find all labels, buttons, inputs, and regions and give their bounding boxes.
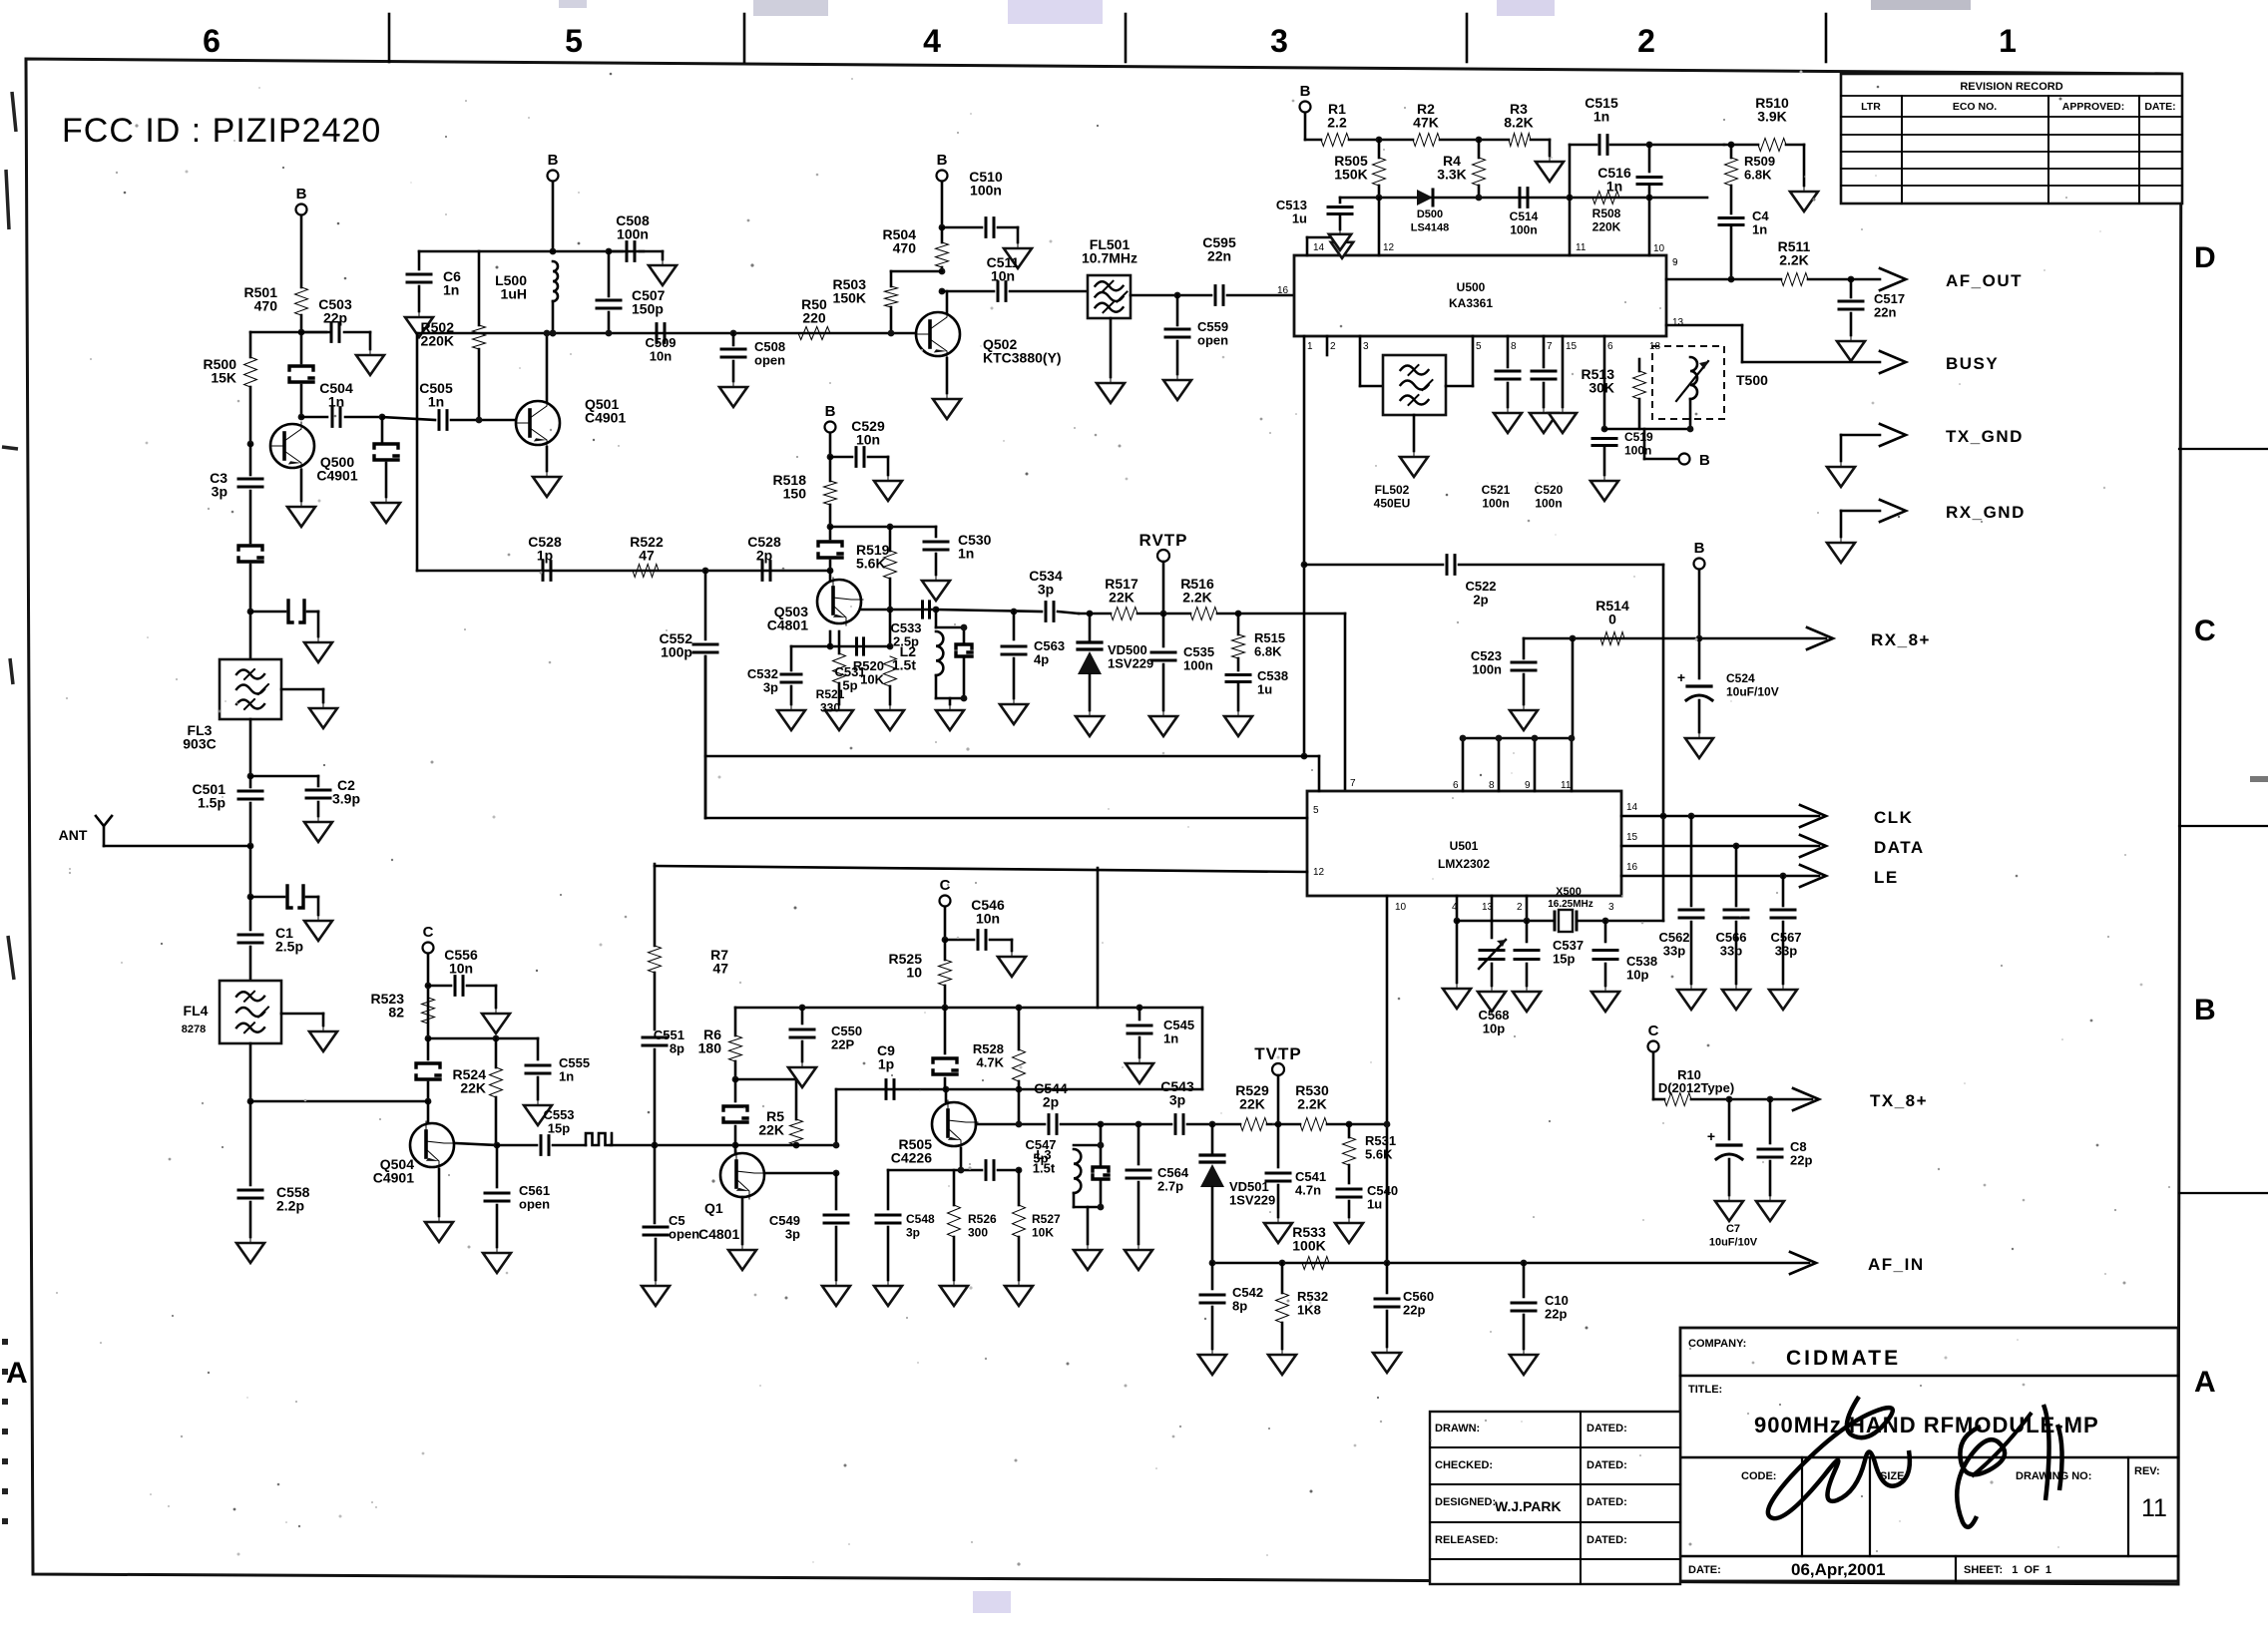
ground bead shunt 1 [317, 636, 319, 642]
svg-text:100n: 100n [617, 226, 649, 242]
capacitor C552 100p [704, 571, 707, 639]
IC U500 KA3361 [1294, 255, 1666, 336]
node R503 base [888, 330, 895, 337]
rail right drop [1201, 1008, 1204, 1089]
rail drop to bias rail [1097, 868, 1100, 1008]
capacitor C561 open [496, 1145, 499, 1187]
IC U501 LMX2302 [1307, 791, 1621, 896]
resistor R502 220K [478, 251, 481, 325]
capacitor C547 5p [986, 1161, 994, 1180]
svg-text:5: 5 [565, 23, 583, 59]
resistor R515 6.8K [1237, 614, 1240, 634]
resistor R1 2.2 [1305, 139, 1321, 142]
svg-text:1n: 1n [958, 546, 974, 562]
pin15 ground wire [1562, 336, 1565, 407]
node R2/R3/R4 [1476, 137, 1483, 144]
varactor VD501 1SV229 [1211, 1124, 1214, 1153]
node R1/R2/R505 [1376, 137, 1383, 144]
pin 14 [1306, 237, 1309, 255]
svg-text:8.2K: 8.2K [1504, 115, 1534, 131]
ferrite bead Q505 base [944, 1008, 947, 1053]
svg-text:33p: 33p [1775, 944, 1797, 959]
resistor R525 10 [944, 940, 947, 960]
node Q503 base [827, 568, 834, 575]
transistor Q500 C4901 [270, 424, 314, 468]
Q1 base row extension [735, 1144, 836, 1147]
capacitor C514 100n [1520, 189, 1528, 207]
svg-text:1: 1 [1999, 23, 2017, 59]
resistor R531 5.6K [1348, 1124, 1351, 1137]
pin9 wire AF_OUT [1666, 278, 1781, 281]
crystal X500 16.25MHz [1555, 912, 1577, 930]
capacitor C10 22p [1523, 1263, 1526, 1297]
svg-text:22p: 22p [1403, 1303, 1425, 1318]
node C7 [1726, 1096, 1733, 1103]
svg-text:KA3361: KA3361 [1449, 296, 1493, 310]
svg-text:RELEASED:: RELEASED: [1435, 1534, 1499, 1546]
node C556 [425, 983, 432, 990]
svg-text:REVISION RECORD: REVISION RECORD [1960, 81, 2062, 93]
svg-text:30K: 30K [1588, 380, 1614, 396]
transistor Q501 C4901 [550, 330, 557, 337]
svg-text:C: C [2194, 614, 2216, 647]
transformer T500 (dashed) [1652, 346, 1724, 419]
svg-text:1n: 1n [1752, 222, 1767, 237]
svg-text:3p: 3p [1038, 582, 1054, 598]
svg-text:33p: 33p [1720, 944, 1742, 959]
node Q505 base [943, 1086, 950, 1093]
Q505 emitter [960, 1148, 963, 1170]
node R523 bottom [425, 1035, 432, 1042]
capacitor C511 10n [942, 290, 994, 293]
resistor R513 30K [1604, 428, 1690, 431]
resistor R526 300 [953, 1170, 956, 1205]
svg-text:1p: 1p [878, 1056, 894, 1072]
svg-text:4.7K: 4.7K [977, 1055, 1005, 1070]
signal arrow AF_IN [1790, 1252, 1816, 1274]
svg-text:DATED:: DATED: [1587, 1496, 1627, 1508]
svg-text:1u: 1u [1257, 682, 1272, 697]
node pin10/C560 [1384, 1260, 1391, 1267]
node R6/R5 [732, 1076, 739, 1083]
filter FL4 8278 [220, 981, 281, 1043]
supply node B (R1) [1300, 102, 1311, 113]
svg-text:14: 14 [1626, 802, 1638, 813]
svg-text:C7: C7 [1726, 1223, 1740, 1235]
svg-text:1uH: 1uH [501, 286, 527, 302]
svg-text:ANT: ANT [59, 827, 88, 843]
ground pin4 [1456, 921, 1459, 983]
svg-text:470: 470 [254, 298, 278, 314]
signal arrow BUSY [1880, 351, 1906, 373]
node collector/R519 [887, 607, 894, 614]
capacitor C551 8p [654, 973, 657, 1029]
svg-text:DATED:: DATED: [1587, 1459, 1627, 1471]
resistor R521 330 [833, 653, 846, 683]
svg-text:APPROVED:: APPROVED: [2062, 101, 2124, 113]
node C564 [1135, 1121, 1142, 1128]
svg-text:DESIGNED:: DESIGNED: [1435, 1496, 1496, 1508]
capacitor C520 100n [1543, 336, 1546, 367]
wire U500 pin12 [1378, 198, 1381, 255]
svg-text:DATE:: DATE: [2144, 101, 2175, 113]
supply node B (Q500 bias) [296, 205, 307, 215]
svg-text:10n: 10n [856, 432, 880, 448]
svg-text:8p: 8p [1232, 1299, 1247, 1314]
svg-text:C519: C519 [1624, 430, 1653, 444]
ferrite bead C504 node shunt [381, 417, 384, 442]
node VD501 [1209, 1121, 1216, 1128]
svg-text:10K: 10K [1032, 1226, 1054, 1240]
resistor R7 47 column [654, 864, 657, 946]
capacitor C564 2.7p [1137, 1124, 1140, 1164]
svg-text:C4901: C4901 [316, 468, 357, 484]
node C516 top [1646, 142, 1653, 149]
resistor R4 3.3K [1478, 140, 1481, 158]
svg-text:DATED:: DATED: [1587, 1423, 1627, 1434]
svg-text:22n: 22n [1207, 248, 1231, 264]
svg-text:C4226: C4226 [891, 1150, 932, 1166]
svg-text:8p: 8p [670, 1041, 684, 1056]
svg-text:3p: 3p [212, 484, 227, 500]
svg-text:1: 1 [1307, 341, 1313, 352]
svg-text:B: B [1694, 540, 1705, 557]
capacitor C540 1u [1348, 1165, 1351, 1183]
svg-text:3p: 3p [906, 1226, 920, 1240]
node X500 right [1577, 920, 1663, 923]
svg-text:A: A [6, 1357, 28, 1390]
varactor VD500 1SV229 [1089, 614, 1092, 640]
svg-text:82: 82 [388, 1005, 404, 1021]
node ANT junction [247, 843, 254, 850]
svg-text:C521: C521 [1482, 483, 1511, 497]
node C5 [652, 1142, 659, 1149]
resistor R509 6.8K [1730, 145, 1733, 158]
svg-text:3.9K: 3.9K [1757, 109, 1787, 125]
svg-text:8: 8 [1511, 341, 1517, 352]
resistor R532 1K8 [1279, 1260, 1286, 1267]
svg-text:7: 7 [1350, 778, 1356, 789]
svg-text:TITLE:: TITLE: [1688, 1384, 1722, 1396]
node C559 [1174, 292, 1181, 299]
node R519 top [887, 524, 894, 531]
svg-text:B: B [1300, 83, 1311, 100]
capacitor C533 2.5p [923, 602, 930, 617]
capacitor C523 100n [1523, 638, 1526, 658]
resistor R516 2.2K [1190, 608, 1217, 620]
transistor Q1 C4801 [720, 1153, 764, 1197]
antenna ANT [104, 845, 250, 848]
svg-text:6: 6 [1453, 780, 1459, 791]
node B RX [1696, 635, 1703, 642]
svg-text:B: B [1699, 452, 1710, 469]
node R525 rail [942, 1005, 949, 1012]
svg-text:R527: R527 [1032, 1212, 1061, 1226]
svg-text:1n: 1n [1593, 109, 1609, 125]
svg-text:10n: 10n [976, 911, 1000, 927]
svg-text:3: 3 [1363, 341, 1369, 352]
svg-text:D(2012Type): D(2012Type) [1658, 1080, 1734, 1095]
svg-text:22p: 22p [323, 310, 347, 326]
bias row 2 [1340, 197, 1707, 200]
wire FL501 to C595 [1131, 294, 1211, 297]
inductor L3 1.5t tank [1100, 1124, 1103, 1145]
wire U500 pin1 column [1303, 336, 1306, 756]
svg-text:12: 12 [1313, 867, 1325, 878]
svg-text:12: 12 [1383, 242, 1395, 253]
capacitor C550 22P [801, 1008, 804, 1024]
svg-text:4: 4 [923, 23, 941, 59]
signal arrow AF_OUT [1880, 268, 1906, 290]
svg-text:B: B [825, 403, 836, 420]
svg-text:16: 16 [1626, 862, 1638, 873]
svg-text:R526: R526 [968, 1212, 997, 1226]
svg-text:1SV229: 1SV229 [1108, 656, 1153, 671]
transistor Q505 C4226 [932, 1102, 976, 1146]
svg-text:16.25MHz: 16.25MHz [1548, 899, 1593, 910]
resistor R5 22K [795, 1079, 798, 1119]
capacitor C563 4p [1013, 612, 1016, 639]
svg-text:RX_8+: RX_8+ [1871, 630, 1931, 649]
node R518/C530 [827, 524, 834, 531]
svg-text:1n: 1n [328, 394, 344, 410]
svg-text:REV:: REV: [2134, 1465, 2160, 1477]
svg-text:CODE:: CODE: [1741, 1470, 1776, 1482]
crystal row [1457, 920, 1555, 923]
node C517 [1848, 276, 1855, 283]
capacitor C522 2p [1447, 556, 1455, 575]
svg-text:22K: 22K [758, 1122, 784, 1138]
svg-text:1p: 1p [537, 548, 553, 564]
svg-text:2p: 2p [1473, 593, 1488, 608]
svg-text:13: 13 [1672, 317, 1684, 328]
capacitor C505 1n [382, 417, 435, 420]
svg-text:TX_GND: TX_GND [1946, 427, 2024, 446]
svg-text:1n: 1n [1606, 179, 1622, 195]
resistor R505 150K [1378, 140, 1381, 158]
svg-text:1.5t: 1.5t [1033, 1161, 1056, 1176]
svg-text:FL502: FL502 [1375, 483, 1410, 497]
svg-text:450EU: 450EU [1374, 497, 1411, 511]
svg-text:220K: 220K [421, 333, 454, 349]
node TVTP [1275, 1121, 1282, 1128]
supply node C (Q504) [423, 943, 434, 954]
capacitor C8 22p [1769, 1099, 1772, 1143]
ground R510 [1786, 144, 1804, 147]
U501 bottom pin10 [1386, 896, 1389, 1263]
node C563 [1011, 609, 1018, 615]
svg-text:2: 2 [1517, 902, 1523, 913]
svg-text:5: 5 [1313, 805, 1319, 816]
node C508b [730, 330, 737, 337]
svg-text:33p: 33p [1663, 944, 1685, 959]
node R524/C561 [494, 1142, 501, 1149]
ferrite bead Q503 base [829, 527, 832, 539]
svg-text:8: 8 [1489, 780, 1495, 791]
svg-text:10.7MHz: 10.7MHz [1082, 250, 1137, 266]
svg-text:330: 330 [820, 701, 840, 715]
capacitor C566 33p [1733, 843, 1740, 850]
svg-text:4p: 4p [1034, 652, 1049, 667]
signature [1768, 1397, 1910, 1518]
svg-text:LMX2302: LMX2302 [1438, 857, 1490, 871]
capacitor C515 1n [1599, 136, 1607, 155]
svg-text:AF_OUT: AF_OUT [1946, 271, 2023, 290]
svg-text:2.2p: 2.2p [276, 1198, 304, 1214]
zone tick marks top border [388, 14, 391, 62]
capacitor C553 15p [497, 1144, 537, 1147]
svg-text:1n: 1n [1163, 1031, 1178, 1046]
node pin11 column [1567, 195, 1574, 202]
capacitor C2 3.9p [250, 775, 318, 778]
emitter row C547 [888, 1169, 982, 1172]
resistor R500 15K [249, 332, 252, 357]
capacitor C501 1.5p [249, 776, 252, 787]
capacitor C7 10uF/10V [1728, 1099, 1731, 1139]
svg-text:100n: 100n [1183, 658, 1213, 673]
svg-text:10p: 10p [1483, 1022, 1505, 1036]
svg-text:RX_GND: RX_GND [1946, 503, 2026, 522]
resistor R10 D(2012Type) [1664, 1093, 1691, 1106]
resistor R503 150K [890, 271, 893, 286]
svg-text:1SV229: 1SV229 [1229, 1193, 1275, 1208]
svg-text:2: 2 [1330, 341, 1336, 352]
supply node B (T500) [1679, 454, 1690, 465]
signal arrow TX_GND [1841, 434, 1880, 437]
svg-text:5.6K: 5.6K [856, 556, 886, 572]
capacitor C532 3p [791, 645, 830, 648]
svg-text:4.7n: 4.7n [1295, 1183, 1321, 1198]
svg-text:+: + [1677, 669, 1685, 685]
svg-text:10uF/10V: 10uF/10V [1709, 1237, 1758, 1249]
chip inductor C553 row [586, 1133, 612, 1145]
node C10 [1521, 1260, 1528, 1267]
supply node B (Q501) [548, 171, 559, 182]
capacitor C542 8p [1211, 1263, 1214, 1289]
svg-text:10n: 10n [650, 349, 672, 364]
svg-text:2.2K: 2.2K [1182, 590, 1212, 606]
resistor R508 220K [1592, 192, 1619, 205]
U501 top pin bus [1463, 737, 1572, 740]
node R4 bottom [1476, 195, 1483, 202]
capacitor C508 100n [609, 250, 623, 253]
signal row DATA [1621, 845, 1819, 848]
svg-text:11: 11 [1576, 242, 1587, 253]
resistor R501 470 [295, 287, 308, 315]
svg-text:3: 3 [1270, 23, 1288, 59]
svg-text:C4901: C4901 [585, 410, 626, 426]
supply node B (Q503) [825, 422, 836, 433]
U501 pin4 wire [1456, 896, 1459, 921]
capacitor C538 10p [1604, 921, 1607, 942]
resistor R511 2.2K [1781, 273, 1808, 286]
svg-text:2.2K: 2.2K [1297, 1096, 1327, 1112]
resistor R524 22K [495, 1038, 498, 1067]
node R502 base Q501 [476, 417, 483, 424]
svg-text:DRAWN:: DRAWN: [1435, 1423, 1480, 1434]
node C507 top [606, 248, 613, 255]
ground FL4 [281, 1013, 323, 1016]
pin2 stub U500 [1326, 336, 1329, 355]
resistor R533 100K [1302, 1257, 1329, 1270]
capacitor C508 open [732, 333, 735, 345]
node R524 top [493, 1035, 500, 1042]
signal row CLK [1621, 815, 1819, 818]
scan speckle [1404, 107, 1406, 109]
svg-text:open: open [1197, 333, 1228, 348]
capacitor C531 5p [857, 638, 864, 654]
supply node B (RX) [1694, 559, 1705, 570]
signal arrow RX_8+ [1807, 627, 1833, 649]
capacitor C556 10n [428, 985, 451, 988]
resistor R6 180 [734, 1008, 737, 1035]
svg-text:22p: 22p [1545, 1307, 1567, 1322]
capacitor C4 1n [1730, 186, 1733, 213]
capacitor C510 100n [942, 226, 982, 229]
svg-text:100n: 100n [970, 183, 1002, 199]
node C510 branch [939, 224, 946, 231]
ground pin14 [1341, 237, 1343, 242]
signal arrow TX_8+ [1793, 1088, 1819, 1110]
svg-text:CHECKED:: CHECKED: [1435, 1459, 1493, 1471]
svg-text:KTC3880(Y): KTC3880(Y) [983, 350, 1062, 366]
ground FL3 [281, 688, 323, 691]
svg-text:220K: 220K [1592, 220, 1621, 234]
wire C522 row [1301, 562, 1308, 569]
trimmer capacitor C568 10p [1491, 921, 1494, 938]
svg-text:15: 15 [1566, 341, 1578, 352]
svg-text:15p: 15p [548, 1121, 570, 1136]
svg-text:100K: 100K [1292, 1238, 1325, 1254]
svg-text:3.3K: 3.3K [1437, 167, 1467, 183]
svg-text:T500: T500 [1736, 372, 1768, 388]
svg-text:B: B [296, 186, 307, 203]
svg-text:LS4148: LS4148 [1411, 222, 1450, 234]
svg-text:A: A [2194, 1366, 2216, 1399]
svg-text:B: B [937, 152, 948, 169]
svg-text:2.5p: 2.5p [275, 939, 303, 955]
supply node C (Q505) [940, 896, 951, 907]
svg-text:CLK: CLK [1874, 808, 1913, 827]
capacitor C517 22n [1850, 279, 1853, 297]
svg-text:7: 7 [1547, 341, 1553, 352]
svg-text:6.8K: 6.8K [1254, 644, 1282, 659]
node L500 bottom [550, 330, 557, 337]
node R528 mid [1016, 1086, 1023, 1093]
node R515 [1235, 611, 1242, 617]
capacitor C504 1n [301, 416, 327, 419]
svg-text:FCC ID : PIZIP2420: FCC ID : PIZIP2420 [62, 112, 381, 150]
resistor R528 4.7K [1016, 1005, 1023, 1012]
svg-text:open: open [754, 353, 785, 368]
svg-text:C520: C520 [1535, 483, 1564, 497]
capacitor C530 1n [935, 527, 938, 537]
resistor R519 5.6K [889, 527, 892, 551]
svg-text:15p: 15p [1553, 952, 1575, 967]
capacitor C534 3p [1046, 603, 1054, 621]
resistor R3 8.2K [1509, 134, 1531, 147]
svg-text:1n: 1n [443, 282, 459, 298]
node R503 top [939, 268, 946, 275]
test point TVTP [1272, 1063, 1284, 1075]
svg-text:2: 2 [1637, 23, 1655, 59]
svg-text:C: C [1648, 1023, 1659, 1039]
zone tick marks right border [2179, 448, 2268, 450]
svg-text:14: 14 [1313, 242, 1325, 253]
feedback wire C528 row [417, 570, 830, 573]
node L2 tank top [933, 607, 940, 614]
node C552 top [702, 568, 709, 575]
